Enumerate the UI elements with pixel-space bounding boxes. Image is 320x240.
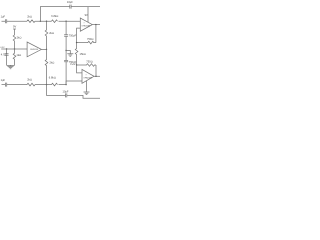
resistor R10 2k (bias divider top) xyxy=(13,35,21,49)
resistor R7 6.8k (bottom wire) xyxy=(49,75,58,85)
wire: bottom channel input wire xyxy=(2,84,67,86)
wire: U1 inverting input xyxy=(77,28,81,42)
svg-text:4.7µF: 4.7µF xyxy=(1,53,8,57)
capacitor C6 750pF (bottom) xyxy=(64,51,76,85)
svg-text:6.8kΩ: 6.8kΩ xyxy=(51,14,58,18)
node: junction dots bottom wire xyxy=(46,84,47,85)
svg-text:750Ω: 750Ω xyxy=(86,59,92,63)
wire: join to ground xyxy=(7,64,15,67)
wire: riser and top feedback rail xyxy=(40,7,100,22)
node: junction dots top wire xyxy=(40,21,41,22)
resistor R2 6.8k (top wire) xyxy=(51,14,58,22)
wire: U1 feedback riser xyxy=(95,25,97,43)
wire: buffer output xyxy=(41,48,46,50)
svg-text:10µF: 10µF xyxy=(63,89,69,93)
op-amp U3 buffer BUF634 xyxy=(27,42,41,57)
svg-text:15kΩ: 15kΩ xyxy=(80,52,86,56)
wire: U2 output xyxy=(94,76,100,77)
resistor R6 2k (bottom wire) xyxy=(27,78,35,86)
svg-text:2kΩ: 2kΩ xyxy=(27,78,32,82)
svg-text:2kΩ: 2kΩ xyxy=(17,35,22,39)
ground (U2 power) xyxy=(84,92,90,94)
svg-text:6.8kΩ: 6.8kΩ xyxy=(49,75,56,79)
svg-text:OPA1688: OPA1688 xyxy=(82,24,91,27)
op-amp U1 (top right, 1/2 OPA1688) xyxy=(80,18,92,31)
svg-text:1kΩ: 1kΩ xyxy=(16,53,21,57)
wire: 9V supply drop to op-amp U1 xyxy=(85,7,88,23)
left bias wire xyxy=(0,47,27,49)
wire: U2 inverting input xyxy=(77,65,82,73)
9V supply terminal xyxy=(13,24,16,35)
svg-text:OPA1688: OPA1688 xyxy=(83,76,92,79)
capacitor C2 10uF (series on top rail) xyxy=(67,0,73,9)
svg-text:750pF: 750pF xyxy=(69,33,77,37)
node: ground tap junction xyxy=(65,50,66,51)
wire: jog to U2 non-inverting input xyxy=(66,81,82,85)
ground (mid tap) xyxy=(67,54,73,56)
wire: U2 power pin down xyxy=(86,81,88,92)
resistor R1 2k (top wire) xyxy=(27,14,35,22)
wire: U2 feedback riser xyxy=(95,65,97,76)
node VMID label xyxy=(70,62,77,66)
svg-text:½: ½ xyxy=(85,72,87,76)
resistor R11 1k (bias divider bottom) xyxy=(13,49,21,65)
svg-text:1µF: 1µF xyxy=(1,78,6,82)
wire: U1 output xyxy=(92,24,100,25)
resistor R9 2k (bottom feedback column) xyxy=(45,49,54,84)
resistor R8 2k (top feedback column) xyxy=(45,21,54,49)
resistor R4 15k (between feedback nodes) xyxy=(75,43,85,65)
ground (bias network) xyxy=(8,66,14,68)
svg-text:10µF: 10µF xyxy=(67,0,73,4)
svg-text:9V: 9V xyxy=(85,13,88,17)
op-amp U2 (bottom right, 1/2 OPA1688) xyxy=(82,69,94,83)
svg-text:2kΩ: 2kΩ xyxy=(49,31,54,35)
svg-text:9V: 9V xyxy=(13,24,16,28)
svg-text:BUF634: BUF634 xyxy=(30,49,38,51)
resistor R3 750 (U1 feedback) xyxy=(77,37,96,44)
wire: bottom riser and lower rail xyxy=(47,85,101,99)
svg-text:750Ω: 750Ω xyxy=(87,37,93,41)
wire: tap to ground xyxy=(66,51,70,54)
svg-text:2kΩ: 2kΩ xyxy=(27,14,32,18)
svg-text:750pF: 750pF xyxy=(69,60,77,64)
capacitor C3 1uF (series, bottom input) xyxy=(1,78,7,86)
capacitor C5 750pF (top) xyxy=(64,21,76,50)
capacitor C4 10uF (series on lower rail) xyxy=(63,89,69,97)
node: buffer output junction xyxy=(46,49,47,50)
capacitor C1 1uF (series, top input) xyxy=(1,14,7,23)
resistor R5 750 (U2 feedback) xyxy=(77,59,96,66)
svg-text:1µF: 1µF xyxy=(1,14,6,18)
svg-text:4.5V: 4.5V xyxy=(0,47,5,49)
capacitor C7 4.7uF (bias) xyxy=(1,49,9,65)
wire: top channel input wire xyxy=(2,20,81,22)
svg-text:½: ½ xyxy=(83,21,85,25)
svg-text:2kΩ: 2kΩ xyxy=(50,60,55,64)
